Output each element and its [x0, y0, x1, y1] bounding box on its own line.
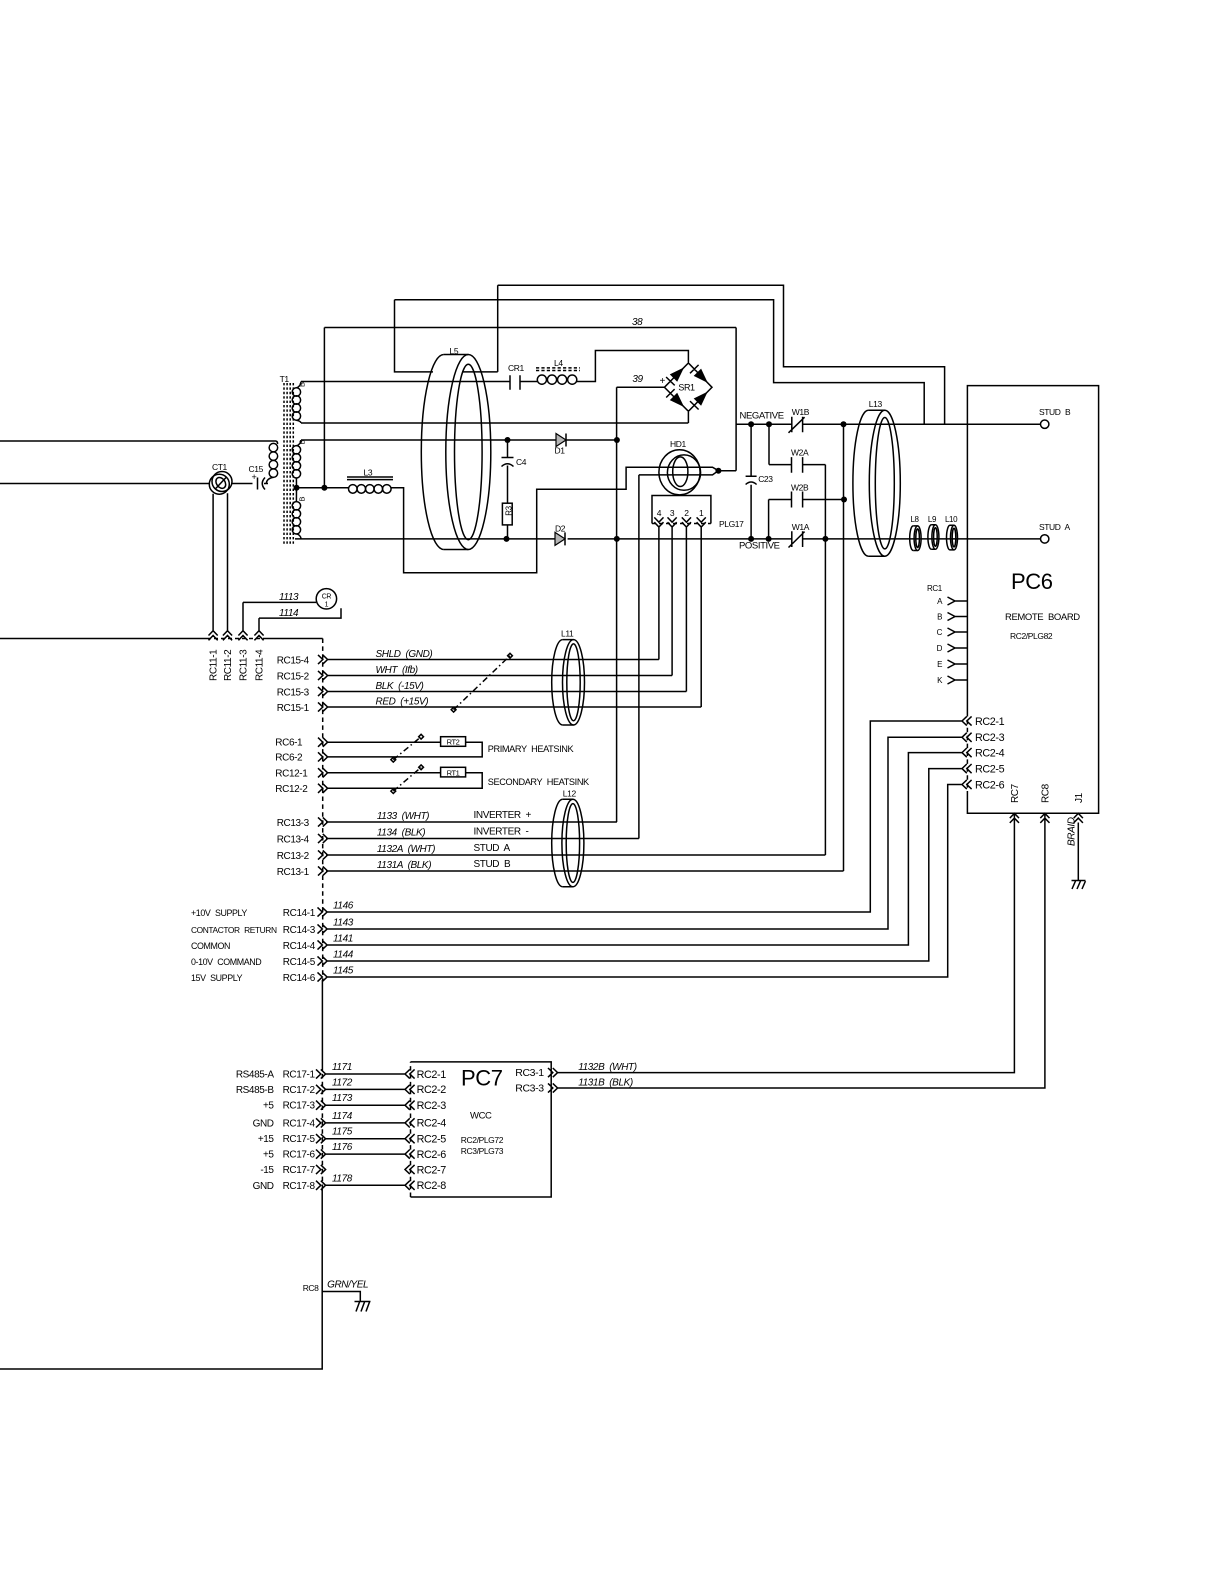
svg-text:SHLD (GND): SHLD (GND)	[376, 649, 433, 660]
svg-text:CR1: CR1	[508, 363, 524, 373]
svg-text:RC2-8: RC2-8	[417, 1180, 447, 1192]
svg-text:1144: 1144	[333, 950, 354, 961]
svg-text:RC13-4: RC13-4	[277, 835, 310, 846]
svg-text:RC17-3: RC17-3	[283, 1101, 316, 1112]
svg-text:RC2/PLG82: RC2/PLG82	[1010, 631, 1053, 641]
svg-text:1132B (WHT): 1132B (WHT)	[578, 1062, 637, 1073]
svg-text:RC14-6: RC14-6	[283, 973, 316, 984]
svg-text:L11: L11	[561, 629, 574, 639]
svg-text:STUD A: STUD A	[474, 843, 511, 854]
svg-text:1171: 1171	[332, 1062, 352, 1073]
svg-text:D1: D1	[555, 446, 566, 456]
svg-text:L5: L5	[450, 346, 459, 356]
svg-text:RC2-4: RC2-4	[975, 747, 1005, 759]
svg-text:STUD A: STUD A	[1039, 522, 1071, 532]
svg-text:RC15-3: RC15-3	[277, 688, 310, 699]
svg-text:1133 (WHT): 1133 (WHT)	[377, 811, 429, 822]
svg-text:L10: L10	[945, 515, 958, 524]
svg-text:L9: L9	[928, 515, 937, 524]
svg-text:INVERTER -: INVERTER -	[474, 827, 529, 838]
svg-text:1131A (BLK): 1131A (BLK)	[377, 860, 431, 871]
svg-text:C23: C23	[758, 474, 773, 484]
svg-text:RT1: RT1	[447, 768, 460, 777]
svg-text:+5: +5	[263, 1150, 274, 1161]
svg-text:+: +	[660, 376, 666, 387]
svg-text:RC17-4: RC17-4	[283, 1118, 316, 1129]
svg-text:RC12-2: RC12-2	[275, 784, 308, 795]
svg-text:RC13-3: RC13-3	[277, 818, 310, 829]
svg-text:RC1: RC1	[927, 584, 943, 593]
svg-text:GRN/YEL: GRN/YEL	[327, 1280, 368, 1291]
svg-text:GND: GND	[253, 1181, 274, 1192]
svg-text:PC7: PC7	[461, 1066, 503, 1091]
svg-text:SECONDARY HEATSINK: SECONDARY HEATSINK	[488, 777, 590, 787]
svg-text:W2B: W2B	[791, 483, 809, 493]
svg-text:RC8: RC8	[1040, 783, 1051, 803]
svg-text:1113: 1113	[279, 592, 299, 603]
svg-text:C: C	[937, 628, 943, 637]
svg-text:B: B	[298, 382, 307, 387]
svg-text:RC17-1: RC17-1	[283, 1070, 316, 1081]
svg-text:1178: 1178	[332, 1173, 353, 1184]
svg-text:2: 2	[684, 508, 689, 518]
svg-text:RC6-2: RC6-2	[275, 752, 303, 763]
svg-text:-15: -15	[260, 1165, 274, 1176]
svg-text:RED (+15V): RED (+15V)	[376, 697, 429, 708]
svg-text:STUD B: STUD B	[1039, 407, 1071, 417]
svg-text:T1: T1	[280, 374, 290, 384]
svg-text:1174: 1174	[332, 1111, 353, 1122]
svg-text:RC2-5: RC2-5	[417, 1134, 447, 1146]
svg-text:PRIMARY HEATSINK: PRIMARY HEATSINK	[488, 744, 575, 754]
svg-text:C4: C4	[516, 457, 527, 467]
svg-text:RC17-2: RC17-2	[283, 1085, 316, 1096]
svg-text:RC2-6: RC2-6	[975, 779, 1005, 791]
svg-text:RC2-3: RC2-3	[975, 732, 1005, 744]
svg-text:B: B	[298, 497, 307, 502]
svg-text:NEGATIVE: NEGATIVE	[740, 411, 784, 422]
svg-text:0-10V COMMAND: 0-10V COMMAND	[191, 957, 261, 967]
svg-text:1131B (BLK): 1131B (BLK)	[578, 1078, 633, 1089]
svg-text:RC11-1: RC11-1	[209, 649, 220, 681]
svg-text:+: +	[252, 472, 257, 482]
svg-text:L12: L12	[563, 789, 577, 799]
svg-text:PC6: PC6	[1011, 569, 1053, 594]
svg-text:1145: 1145	[333, 966, 354, 977]
svg-text:RC15-4: RC15-4	[277, 656, 310, 667]
svg-text:RC2-1: RC2-1	[417, 1069, 447, 1081]
svg-text:E: E	[937, 660, 942, 669]
svg-text:WHT (Ifb): WHT (Ifb)	[376, 665, 418, 676]
svg-text:1141: 1141	[333, 934, 353, 945]
svg-text:D2: D2	[555, 524, 566, 534]
svg-text:J1: J1	[1074, 792, 1085, 803]
svg-text:1: 1	[699, 508, 704, 518]
svg-text:RC2-3: RC2-3	[417, 1100, 447, 1112]
svg-text:HD1: HD1	[670, 439, 686, 449]
svg-text:3: 3	[670, 508, 675, 518]
svg-text:RC7: RC7	[1010, 783, 1021, 803]
svg-text:1114: 1114	[279, 608, 299, 619]
svg-text:CR: CR	[322, 594, 332, 601]
svg-text:L4: L4	[554, 358, 563, 368]
svg-text:4: 4	[657, 508, 662, 518]
svg-text:1134 (BLK): 1134 (BLK)	[377, 828, 425, 839]
svg-text:COMMON: COMMON	[191, 941, 230, 951]
svg-text:BRAID: BRAID	[1067, 817, 1078, 846]
svg-text:RC11-3: RC11-3	[238, 649, 249, 681]
svg-text:RC11-4: RC11-4	[254, 649, 265, 681]
svg-text:PLG17: PLG17	[719, 519, 744, 529]
svg-text:RT2: RT2	[447, 738, 460, 747]
svg-text:+5: +5	[263, 1101, 274, 1112]
svg-text:RC3-3: RC3-3	[515, 1083, 544, 1095]
svg-text:+10V SUPPLY: +10V SUPPLY	[191, 908, 247, 918]
svg-text:RC17-6: RC17-6	[283, 1150, 316, 1161]
svg-text:38: 38	[632, 317, 643, 328]
svg-text:RS485-B: RS485-B	[236, 1085, 275, 1096]
svg-text:+15: +15	[258, 1134, 275, 1145]
svg-text:SR1: SR1	[678, 383, 695, 393]
svg-text:15V SUPPLY: 15V SUPPLY	[191, 973, 243, 983]
svg-text:CONTACTOR RETURN: CONTACTOR RETURN	[191, 925, 277, 935]
svg-text:RC12-1: RC12-1	[275, 768, 308, 779]
svg-text:RC3/PLG73: RC3/PLG73	[461, 1146, 504, 1156]
svg-text:STUD B: STUD B	[474, 859, 512, 870]
svg-text:POSITIVE: POSITIVE	[739, 541, 780, 552]
svg-text:RC15-1: RC15-1	[277, 703, 310, 714]
svg-text:RC17-7: RC17-7	[283, 1165, 316, 1176]
svg-text:1172: 1172	[332, 1077, 353, 1088]
svg-text:CT1: CT1	[212, 462, 228, 472]
svg-text:RC8: RC8	[303, 1283, 319, 1293]
svg-text:1175: 1175	[332, 1127, 353, 1138]
svg-text:1: 1	[325, 602, 329, 609]
svg-text:RC2-1: RC2-1	[975, 716, 1005, 728]
svg-text:W1A: W1A	[792, 522, 810, 532]
svg-text:R3: R3	[505, 505, 514, 515]
svg-text:RS485-A: RS485-A	[236, 1070, 275, 1081]
svg-text:INVERTER +: INVERTER +	[474, 810, 532, 821]
svg-text:1132A (WHT): 1132A (WHT)	[377, 844, 435, 855]
svg-text:W1B: W1B	[792, 407, 810, 417]
svg-text:B: B	[298, 440, 307, 445]
svg-text:RC2-5: RC2-5	[975, 763, 1005, 775]
svg-text:RC14-1: RC14-1	[283, 908, 316, 919]
svg-text:RC2-4: RC2-4	[417, 1118, 447, 1130]
svg-text:W2A: W2A	[791, 448, 809, 458]
svg-text:RC14-3: RC14-3	[283, 925, 316, 936]
svg-text:GND: GND	[253, 1118, 274, 1129]
svg-text:RC6-1: RC6-1	[275, 738, 303, 749]
svg-text:BLK (-15V): BLK (-15V)	[376, 681, 424, 692]
svg-text:RC3-1: RC3-1	[515, 1067, 544, 1079]
svg-text:RC17-5: RC17-5	[283, 1134, 316, 1145]
svg-text:L3: L3	[364, 468, 373, 478]
svg-text:39: 39	[632, 374, 643, 385]
svg-text:RC13-2: RC13-2	[277, 851, 310, 862]
svg-text:REMOTE BOARD: REMOTE BOARD	[1005, 612, 1080, 623]
svg-text:WCC: WCC	[470, 1111, 492, 1122]
svg-text:1143: 1143	[333, 918, 354, 929]
svg-text:RC13-1: RC13-1	[277, 867, 310, 878]
svg-text:RC2-7: RC2-7	[417, 1164, 447, 1176]
svg-text:1146: 1146	[333, 901, 354, 912]
svg-text:RC11-2: RC11-2	[223, 649, 234, 681]
svg-text:RC2-2: RC2-2	[417, 1084, 447, 1096]
svg-text:RC2-6: RC2-6	[417, 1149, 447, 1161]
svg-text:RC15-2: RC15-2	[277, 672, 310, 683]
svg-text:B: B	[937, 613, 942, 622]
svg-text:1173: 1173	[332, 1093, 353, 1104]
svg-text:RC2/PLG72: RC2/PLG72	[461, 1135, 504, 1145]
svg-text:D: D	[937, 644, 943, 653]
svg-text:1176: 1176	[332, 1142, 353, 1153]
svg-text:L8: L8	[911, 515, 920, 524]
svg-text:RC14-5: RC14-5	[283, 957, 316, 968]
svg-text:L13: L13	[869, 399, 883, 409]
svg-text:RC17-8: RC17-8	[283, 1181, 316, 1192]
svg-text:RC14-4: RC14-4	[283, 941, 316, 952]
